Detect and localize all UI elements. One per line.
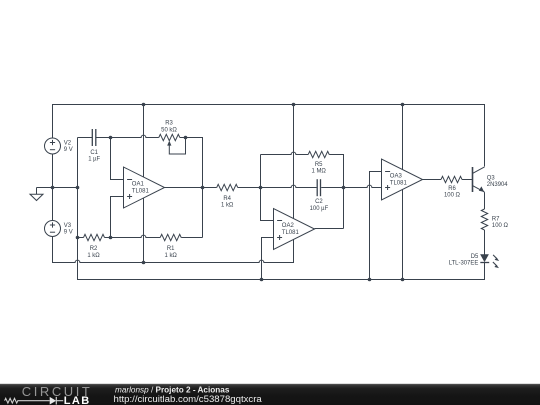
resistor R7: [481, 209, 487, 230]
wire ground riser x402: [402, 105, 404, 280]
capacitor C1: [91, 129, 93, 146]
wire OA2 inverting input riser: [261, 155, 274, 221]
svg-text:2N3904: 2N3904: [487, 182, 508, 188]
node GND to C1 left: [76, 186, 80, 190]
svg-text:LAB: LAB: [64, 395, 91, 405]
wire R3 wiper loop: [169, 138, 185, 155]
resistor R1: [160, 234, 181, 240]
voltage source V3: [45, 221, 61, 237]
voltage source V2: [45, 138, 61, 154]
svg-text:TL081: TL081: [390, 180, 408, 186]
wire OA3 output to R6: [423, 179, 442, 181]
wire R4 to C2 with hop: [238, 185, 317, 187]
svg-text:1 kΩ: 1 kΩ: [87, 253, 100, 259]
wire R5 right lead + vertical x343.5: [329, 155, 343, 229]
transistor Q3 emitter stroke with arrow: [473, 186, 485, 193]
svg-text:V2: V2: [64, 140, 71, 146]
wire C2 right to OA3+ with hop: [321, 185, 381, 187]
node -9V rail top x143: [142, 103, 146, 107]
svg-text:C2: C2: [315, 199, 323, 205]
capacitor C2: [316, 179, 318, 196]
node -9V rail top x293: [292, 103, 296, 107]
wire OA1 inverting input: [111, 138, 124, 180]
transistor Q3 collector stroke: [473, 167, 485, 174]
CircuitLab logo diode: [50, 397, 56, 405]
svg-text:100 Ω: 100 Ω: [492, 223, 509, 229]
op-amp OA2: [274, 209, 315, 250]
wire -9V riser x143.5: [143, 105, 145, 263]
node GND at R2 left: [76, 236, 80, 240]
wire C1 row with hop at x143.5: [78, 137, 93, 139]
svg-text:1 kΩ: 1 kΩ: [221, 202, 234, 208]
wire V2- to V3+: [52, 154, 54, 221]
node gnd riser bottom x402: [401, 278, 405, 282]
node C1/OA1- junction: [109, 136, 113, 140]
svg-text:V3: V3: [64, 223, 72, 229]
node GND at V2-/V3+: [51, 186, 55, 190]
ground symbol: [36, 188, 38, 195]
svg-text:100 Ω: 100 Ω: [444, 193, 461, 199]
node R3 wiper tie: [184, 136, 188, 140]
svg-text:OA1: OA1: [132, 182, 145, 188]
resistor R4: [217, 184, 238, 190]
LED D5 triangle: [481, 255, 488, 262]
wire R7 to LED: [484, 230, 486, 255]
svg-text:R6: R6: [448, 186, 456, 192]
potentiometer R3: [159, 134, 180, 140]
wire OA1 non-inverting input: [111, 197, 124, 238]
wire R5 row with hop: [261, 152, 309, 154]
svg-text:R1: R1: [167, 246, 175, 252]
svg-text:TL081: TL081: [282, 230, 300, 236]
wire R1 right lead: [181, 237, 202, 239]
svg-text:OA3: OA3: [390, 174, 403, 180]
transistor Q3 base bar: [472, 167, 474, 192]
svg-text:D5: D5: [471, 254, 479, 260]
svg-text:R4: R4: [223, 196, 231, 202]
op-amp OA3: [382, 159, 423, 200]
svg-text:R3: R3: [165, 121, 173, 127]
wire ground riser x77 + bottom rail + LED cathode riser: [78, 138, 485, 280]
wire ground row: [37, 187, 78, 189]
wire OA1 output row: [165, 187, 217, 189]
svg-text:R5: R5: [315, 162, 323, 168]
svg-text:http://circuitlab.com/c53878gq: http://circuitlab.com/c53878gqtxcra: [114, 394, 263, 405]
resistor R2: [84, 234, 105, 240]
resistor R6: [441, 176, 462, 182]
wire OA2 non-inverting to ground rail: [262, 238, 274, 280]
resistor R5: [308, 151, 329, 157]
wire R3 right lead + vertical to R1: [180, 138, 203, 238]
R3 wiper arrowhead: [167, 141, 171, 146]
wire OA2 output: [315, 228, 344, 230]
svg-text:LTL-307EE: LTL-307EE: [449, 261, 479, 267]
node OA2+ ground tie: [260, 278, 264, 282]
svg-text:OA2: OA2: [282, 223, 295, 229]
node OA1 out/R3/R1: [201, 186, 205, 190]
wire top rail: [53, 105, 485, 167]
svg-text:TL081: TL081: [132, 188, 150, 194]
node gnd riser top x402: [401, 103, 405, 107]
svg-text:1 kΩ: 1 kΩ: [165, 253, 178, 259]
svg-text:1 MΩ: 1 MΩ: [312, 169, 327, 175]
wire OA3 inverting to ground rail: [370, 172, 382, 280]
wire R2 leads: [78, 237, 84, 239]
node -9V row x143: [142, 261, 146, 265]
wire V3- row with hops, riser to top rail at x293: [53, 105, 294, 263]
CircuitLab logo waveform resistor zigzag: [5, 398, 50, 403]
svg-text:C1: C1: [90, 150, 98, 156]
svg-text:Q3: Q3: [487, 175, 496, 181]
footer bar: [0, 384, 540, 405]
wire Q3 emitter to R7: [484, 192, 486, 209]
svg-text:R2: R2: [90, 246, 98, 252]
svg-text:R7: R7: [492, 216, 500, 222]
node OA3- ground tie: [368, 278, 372, 282]
node R2/R1/OA1+ junction: [109, 236, 113, 240]
LED D5 light arrows: [493, 255, 497, 259]
node R4/OA2-/R5: [259, 186, 263, 190]
svg-text:50 kΩ: 50 kΩ: [161, 127, 177, 133]
svg-text:9 V: 9 V: [64, 147, 73, 153]
op-amp OA1: [124, 167, 165, 208]
svg-text:9 V: 9 V: [64, 229, 73, 235]
wire R6 to Q3 base: [462, 179, 473, 181]
svg-text:100 µF: 100 µF: [310, 206, 329, 212]
LED D5 cathode bar: [480, 262, 489, 264]
node C2/R5/OA2 out: [342, 186, 346, 190]
svg-text:1 µF: 1 µF: [88, 157, 100, 163]
wire R1 left lead with hop: [111, 235, 161, 237]
